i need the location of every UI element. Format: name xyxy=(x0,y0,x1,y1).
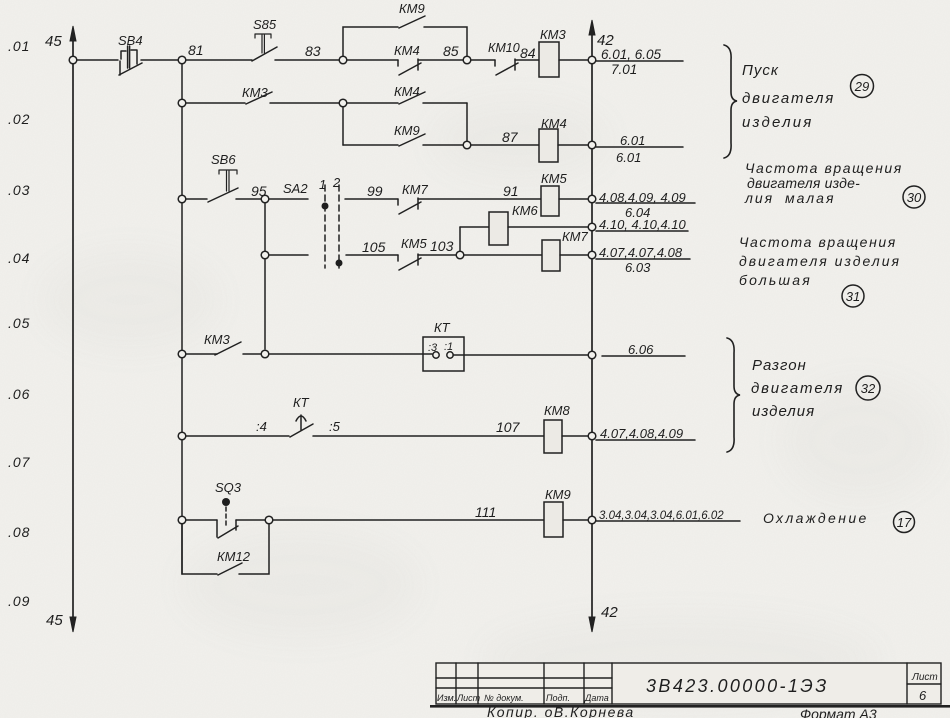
wire xyxy=(243,353,261,355)
wire xyxy=(186,59,252,61)
svg-text:Копир. оВ.Корнева: Копир. оВ.Корнева xyxy=(487,704,635,718)
svg-text:Лист: Лист xyxy=(456,693,481,703)
node bus42 row01 xyxy=(588,56,596,64)
svg-text:103: 103 xyxy=(430,238,454,254)
svg-text:двигателя изделия: двигателя изделия xyxy=(739,253,901,269)
node junction row02 xyxy=(339,99,347,107)
svg-text:КМ4: КМ4 xyxy=(394,84,420,99)
coil KM8 xyxy=(544,420,562,453)
svg-text:Дата: Дата xyxy=(584,693,609,703)
wire 111 xyxy=(273,519,544,521)
contact KM3 (NO) row05 xyxy=(215,342,241,355)
contact KM10 (NC) xyxy=(495,59,518,75)
coil KM4 xyxy=(539,129,558,162)
svg-text:КТ: КТ xyxy=(434,320,451,335)
svg-text:99: 99 xyxy=(367,183,383,199)
svg-text:КМ7: КМ7 xyxy=(562,229,588,244)
wire stub 6.06 xyxy=(602,355,685,357)
svg-text:Формат А3: Формат А3 xyxy=(800,706,877,718)
contact KM5 (NC) row04 xyxy=(398,254,421,270)
wire KM4 branch xyxy=(347,102,398,104)
coil KM5 xyxy=(541,186,559,216)
svg-text:83: 83 xyxy=(305,43,321,59)
node bus45 row 01 xyxy=(69,56,77,64)
svg-text:6.01: 6.01 xyxy=(616,150,641,165)
node 81 xyxy=(178,56,186,64)
ref circle 17 xyxy=(894,512,915,533)
wire xyxy=(347,59,398,61)
wire xyxy=(270,102,343,104)
wire KM9 bypass row01 xyxy=(343,27,467,56)
svg-text:КМ3: КМ3 xyxy=(204,332,230,347)
svg-text:КТ: КТ xyxy=(293,395,310,410)
wire xyxy=(141,59,178,61)
node bus42 KM6 xyxy=(588,223,596,231)
svg-text:.02: .02 xyxy=(8,111,30,127)
node 95 xyxy=(261,195,269,203)
svg-text:45: 45 xyxy=(46,612,63,629)
bus 42 (right vertical supply line) xyxy=(589,20,595,632)
node feeder row06 xyxy=(178,432,186,440)
wire third vertical (node 95 down) xyxy=(264,203,266,349)
svg-text:85: 85 xyxy=(443,43,459,59)
node 87 junction xyxy=(463,141,471,149)
wire KM12 bypass xyxy=(182,524,269,574)
svg-text:17: 17 xyxy=(897,515,912,530)
pushbutton SB4 xyxy=(119,46,142,75)
svg-text:КМ9: КМ9 xyxy=(545,487,571,502)
svg-text:Частота вращения: Частота вращения xyxy=(745,160,903,176)
wire xyxy=(560,254,588,256)
wire xyxy=(471,59,495,61)
svg-text:81: 81 xyxy=(188,42,204,58)
svg-text:.04: .04 xyxy=(8,250,30,266)
limit switch SQ3 xyxy=(217,498,238,538)
svg-text:двигателя: двигателя xyxy=(742,90,835,107)
node bus42 row04 xyxy=(588,251,596,259)
wire 91 xyxy=(418,198,541,200)
svg-text:лия малая: лия малая xyxy=(744,190,835,206)
pushbutton SB5 xyxy=(252,34,277,61)
svg-text:32: 32 xyxy=(861,381,876,396)
wire KM9 branch xyxy=(343,144,398,146)
coil KM9 xyxy=(544,502,563,537)
svg-text:изделия: изделия xyxy=(752,403,815,420)
wire row04 xyxy=(269,254,398,256)
switch SA2 position lines xyxy=(325,185,339,268)
svg-text:КМ4: КМ4 xyxy=(541,116,567,131)
wire 107 xyxy=(313,435,544,437)
svg-text:КМ12: КМ12 xyxy=(217,549,251,564)
contact KM9 (NO) row02 xyxy=(399,134,425,146)
pushbutton SB6 xyxy=(208,170,238,202)
wire xyxy=(460,226,489,228)
svg-text:.09: .09 xyxy=(8,593,30,609)
node row08 xyxy=(265,516,273,524)
brace rows 05-06 xyxy=(727,338,740,452)
node feeder row02 xyxy=(178,99,186,107)
svg-text:КМ7: КМ7 xyxy=(402,182,428,197)
node feeder row03 xyxy=(178,195,186,203)
ref circle 31 xyxy=(842,285,864,307)
svg-text:6: 6 xyxy=(919,688,927,703)
coil KM7 xyxy=(542,240,560,271)
bus 45 (left vertical supply line) xyxy=(70,26,76,632)
wire row 02 xyxy=(186,102,245,104)
node feeder row05 xyxy=(178,350,186,358)
svg-text:№ докум.: № докум. xyxy=(484,693,524,703)
svg-text:КМ6: КМ6 xyxy=(512,203,538,218)
svg-text:Изм.: Изм. xyxy=(437,693,456,703)
wire xyxy=(236,198,261,200)
svg-text:4.07,4.08,4.09: 4.07,4.08,4.09 xyxy=(600,426,683,441)
wire xyxy=(423,144,463,146)
svg-text::3: :3 xyxy=(428,342,438,354)
wire xyxy=(562,435,588,437)
svg-text:.06: .06 xyxy=(8,386,30,402)
wire row06 xyxy=(186,435,289,437)
svg-text:7.01: 7.01 xyxy=(611,62,637,77)
svg-text:45: 45 xyxy=(45,33,62,50)
svg-text:двигателя изде-: двигателя изде- xyxy=(747,175,860,191)
wire xyxy=(236,519,265,521)
svg-text:4.07,4.07,4.08: 4.07,4.07,4.08 xyxy=(599,245,683,260)
svg-text:4.08,4.09, 4.09: 4.08,4.09, 4.09 xyxy=(599,190,686,205)
contact KM9 (NO) row01 bypass xyxy=(399,16,425,28)
svg-text:Подп.: Подп. xyxy=(546,693,570,703)
svg-text::5: :5 xyxy=(329,419,341,434)
svg-text:КМ9: КМ9 xyxy=(399,1,425,16)
wire stub 4.07 row06 xyxy=(596,439,695,441)
timer contact block KT :3 :1 xyxy=(423,337,464,371)
node bus42 row05 xyxy=(588,351,596,359)
wire xyxy=(559,59,588,61)
wire 99 xyxy=(345,198,398,200)
node row05 mid xyxy=(261,350,269,358)
svg-text:.01: .01 xyxy=(8,38,30,54)
node junction row01 left xyxy=(339,56,347,64)
node 85 xyxy=(463,56,471,64)
wire stub 4.10 xyxy=(596,230,688,232)
title block bottom heavy line xyxy=(430,705,950,708)
svg-text:105: 105 xyxy=(362,239,386,255)
svg-text:2: 2 xyxy=(332,175,341,190)
svg-text:Лист: Лист xyxy=(911,672,938,683)
svg-text:SB6: SB6 xyxy=(211,152,236,167)
wire xyxy=(559,198,588,200)
wire xyxy=(508,226,588,228)
contact KM12 (NO) xyxy=(218,563,242,575)
svg-text:29: 29 xyxy=(854,79,869,94)
svg-text:4.10, 4.10,4.10: 4.10, 4.10,4.10 xyxy=(599,217,687,232)
node bus42 row06 xyxy=(588,432,596,440)
svg-text:3.04,3.04,3.04,6.01,6.02: 3.04,3.04,3.04,6.01,6.02 xyxy=(599,510,724,522)
svg-text:.05: .05 xyxy=(8,315,30,331)
node row04 left xyxy=(261,251,269,259)
svg-text:КМ9: КМ9 xyxy=(394,123,420,138)
svg-text:КМ3: КМ3 xyxy=(242,85,268,100)
wire xyxy=(418,254,456,256)
svg-text:Разгон: Разгон xyxy=(752,357,807,374)
svg-text:84: 84 xyxy=(520,45,536,61)
wire xyxy=(558,144,588,146)
svg-text:двигателя: двигателя xyxy=(751,380,844,397)
svg-text:107: 107 xyxy=(496,419,521,435)
svg-text:КМ5: КМ5 xyxy=(541,171,567,186)
svg-text:КМ8: КМ8 xyxy=(544,403,570,418)
brace rows 01-02 xyxy=(724,45,737,158)
svg-text:S85: S85 xyxy=(253,17,277,32)
wire 83 xyxy=(275,59,343,61)
wire row08 xyxy=(186,519,217,521)
node 103 xyxy=(456,251,464,259)
svg-text:КМ10: КМ10 xyxy=(488,41,520,55)
wire xyxy=(423,102,467,104)
node bus42 row03 xyxy=(588,195,596,203)
wire 87 xyxy=(471,144,539,146)
svg-text:87: 87 xyxy=(502,129,519,145)
svg-text::4: :4 xyxy=(256,419,267,434)
wire stub 4.08 xyxy=(596,202,695,204)
wire stub 3.04 row08 xyxy=(596,520,740,522)
svg-text:.08: .08 xyxy=(8,524,30,540)
svg-text:95: 95 xyxy=(251,183,267,199)
coil KM3 xyxy=(539,42,559,77)
node feeder row08 xyxy=(178,516,186,524)
node bus42 row08 xyxy=(588,516,596,524)
svg-text:30: 30 xyxy=(907,190,922,205)
svg-text:SB4: SB4 xyxy=(118,33,143,48)
wire stub 6.01 6.05 / 7.01 xyxy=(596,60,683,62)
SA2 position dot 1 xyxy=(322,203,329,210)
ref circle 30 xyxy=(903,186,925,208)
svg-text:6.03: 6.03 xyxy=(625,260,651,275)
contact KM4 (NC) row01 xyxy=(398,59,421,75)
feeder wire (vertical from node 81 down) xyxy=(181,60,183,574)
contact KM4 (NO) row02 xyxy=(399,92,425,104)
wire xyxy=(418,59,463,61)
wire xyxy=(563,519,588,521)
coil KM6 xyxy=(489,212,508,245)
ref circle 32 xyxy=(856,376,880,400)
wire parallel branch verticals xyxy=(343,103,467,145)
wire xyxy=(464,254,542,256)
svg-text:6.06: 6.06 xyxy=(628,342,654,357)
wire row 01 from bus xyxy=(77,59,118,61)
svg-text:42: 42 xyxy=(601,604,618,621)
svg-text:.03: .03 xyxy=(8,182,30,198)
svg-text:SA2: SA2 xyxy=(283,181,308,196)
wire xyxy=(269,198,308,200)
wire KM6 branch vertical xyxy=(459,227,461,251)
wire xyxy=(453,354,588,356)
contact KM3 (NO) row02 xyxy=(246,92,272,104)
timed contact KT (delayed closing) xyxy=(290,415,313,437)
svg-text:111: 111 xyxy=(475,504,496,520)
svg-text:КМ3: КМ3 xyxy=(540,27,566,42)
SA2 position dot 2 xyxy=(336,260,343,267)
svg-text:91: 91 xyxy=(503,183,519,199)
node bus42 row02 xyxy=(588,141,596,149)
wire row 03 xyxy=(186,198,207,200)
svg-text:Охлаждение: Охлаждение xyxy=(763,510,869,526)
wire xyxy=(515,59,539,61)
wire stub 4.07 xyxy=(596,258,690,260)
svg-text:изделия: изделия xyxy=(742,114,814,131)
wire xyxy=(269,353,432,355)
svg-text:SQ3: SQ3 xyxy=(215,480,242,495)
svg-text:КМ5: КМ5 xyxy=(401,236,427,251)
svg-text:Частота вращения: Частота вращения xyxy=(739,234,897,250)
svg-text:31: 31 xyxy=(846,289,860,304)
svg-text:6.01: 6.01 xyxy=(620,133,645,148)
wire row05 xyxy=(186,353,217,355)
svg-text:большая: большая xyxy=(739,272,812,288)
wire stub 6.01/6.01 xyxy=(596,146,683,148)
svg-text:КМ4: КМ4 xyxy=(394,43,420,58)
svg-text:3В423.00000-1ЭЗ: 3В423.00000-1ЭЗ xyxy=(646,676,829,696)
svg-text:1: 1 xyxy=(319,177,326,192)
svg-text:6.01, 6.05: 6.01, 6.05 xyxy=(601,47,662,62)
svg-text::1: :1 xyxy=(444,341,453,353)
title block frame xyxy=(436,663,941,704)
ref circle 29 xyxy=(851,75,874,98)
contact KM7 (NC) row03 xyxy=(398,198,421,214)
svg-text:Пуск: Пуск xyxy=(742,62,779,79)
svg-text:.07: .07 xyxy=(8,454,31,470)
